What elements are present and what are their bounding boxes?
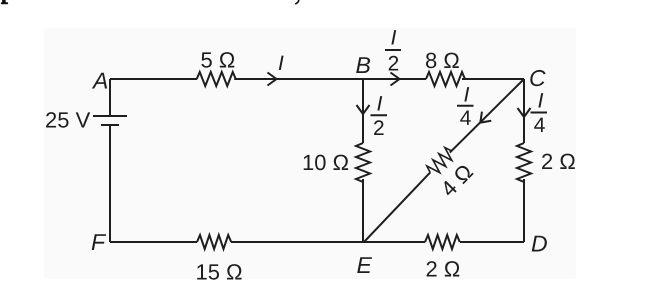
current fraction I/4 denominator (diagonal) [460, 111, 471, 125]
value label 10 ohm [304, 155, 348, 171]
wire B to 10-ohm [362, 79, 364, 143]
value label 5 ohm [201, 52, 234, 68]
resistor 2-ohm bottom [425, 235, 460, 249]
wire 2-ohm to D [523, 179, 525, 242]
current fraction I/4 numerator (C-D) [538, 93, 543, 107]
wire A to 5-ohm [110, 78, 197, 80]
resistor 10-ohm [356, 143, 370, 182]
current fraction I/2 numerator (B-E) [377, 96, 382, 110]
wire 2-ohm to D [460, 241, 524, 243]
current fraction I/2 denominator (B-E) [374, 120, 384, 135]
current arrow I (A to B) [268, 73, 277, 86]
value label 25 V [46, 112, 90, 128]
wire 10-ohm to E [362, 179, 364, 242]
current arrow I/4 down (C to D) [518, 108, 531, 117]
resistor 8-ohm [426, 72, 465, 86]
current fraction I/2 bar (top wire) [385, 49, 401, 51]
current arrow I/4 on diagonal (C to E) [476, 112, 492, 128]
wire F to 15-ohm [110, 241, 197, 243]
wire battery to F [109, 125, 111, 242]
resistor 4-ohm diagonal [425, 146, 456, 178]
figure background panel [44, 28, 576, 279]
resistor 2-ohm right [517, 143, 531, 182]
node A [92, 73, 107, 89]
node C [530, 70, 545, 86]
wire B to 8-ohm [363, 78, 426, 80]
wire C to 4-ohm diagonal [450, 79, 524, 153]
resistor 15-ohm [197, 235, 231, 249]
current arrow I/2 down (B to E) [357, 105, 370, 114]
value label 4 ohm rotated [439, 163, 473, 198]
value label 8 ohm [426, 53, 459, 69]
wire 8-ohm to C [462, 78, 524, 80]
value label 2 ohm bottom [427, 261, 460, 276]
current fraction I/4 denominator (C-D) [534, 118, 545, 132]
battery 25 V positive plate [93, 115, 127, 117]
current fraction I/2 bar (B-E) [371, 114, 388, 116]
node F [92, 234, 106, 250]
current label I [279, 56, 284, 70]
wire 5-ohm to B [234, 78, 363, 80]
stray comma fragment top-middle [295, 0, 299, 4]
node D [532, 236, 547, 252]
current fraction I/2 denominator (top wire) [389, 56, 399, 71]
battery 25 V negative plate [101, 124, 119, 126]
wire C to 2-ohm [523, 79, 525, 143]
wire 4-ohm to E [364, 172, 430, 242]
node E [357, 257, 372, 273]
stray glyph fragment top-left [1, 0, 8, 4]
current fraction I/4 bar (diagonal) [457, 105, 474, 107]
current arrow I/2 (B to C) [391, 73, 400, 86]
wire 15-ohm to 2-ohm bottom [231, 241, 425, 243]
value label 15 ohm [197, 264, 241, 280]
node B [356, 57, 370, 73]
value label 2 ohm right [542, 154, 575, 169]
current fraction I/4 bar (C-D) [531, 112, 548, 114]
current fraction I/4 numerator (diagonal) [464, 87, 469, 101]
resistor 5-ohm [197, 72, 236, 86]
current fraction I/2 numerator (top wire) [391, 30, 396, 44]
wire A to battery [109, 79, 111, 116]
